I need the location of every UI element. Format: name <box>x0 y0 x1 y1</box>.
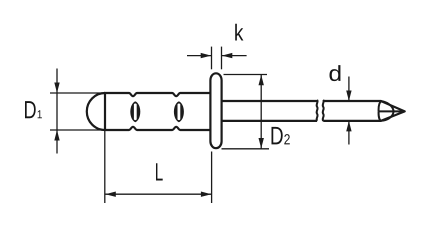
mandrel stem left segment <box>222 101 317 121</box>
D2 top extension line <box>224 74 268 76</box>
k left arrowhead <box>201 53 212 58</box>
mandrel point lower flute <box>379 111 394 120</box>
label D1 <box>25 101 42 118</box>
crimp oval 1 <box>130 101 140 122</box>
L right arrowhead <box>201 192 212 197</box>
d dimension line upper segment <box>348 77 350 101</box>
break squiggle right <box>323 100 324 121</box>
k dimension line right part <box>222 55 247 57</box>
label L <box>156 163 163 180</box>
rivet body bottom edge with crimp notches <box>104 127 211 130</box>
k extension tick left <box>211 47 213 70</box>
crimp oval 2 <box>174 101 184 122</box>
label D2 <box>272 127 290 144</box>
label k <box>235 24 243 41</box>
label d <box>329 65 340 81</box>
mandrel stem right segment <box>323 101 381 121</box>
k dimension line left part <box>187 55 211 57</box>
L dimension line <box>105 193 212 195</box>
d lower arrowhead <box>346 121 351 131</box>
break squiggle left <box>317 100 318 121</box>
k extension tick right <box>221 47 223 70</box>
D1 top arrowhead <box>54 83 59 94</box>
D1 dimension line <box>56 69 58 154</box>
rivet body top edge with crimp notches <box>104 93 211 96</box>
D2 bottom extension line <box>222 148 270 150</box>
D1 bottom extension line <box>50 129 105 131</box>
k right arrowhead <box>222 53 233 58</box>
D2 dimension line <box>260 75 262 149</box>
D2 top arrowhead <box>259 75 264 86</box>
dome-body junction line <box>104 92 106 131</box>
L left arrowhead <box>105 192 116 197</box>
D1 bottom arrowhead <box>54 130 59 141</box>
mandrel point center line <box>378 110 404 112</box>
D1 top extension line <box>50 92 105 94</box>
mandrel point outline <box>381 101 405 121</box>
L left extension line <box>104 130 106 203</box>
rivet dome head <box>87 93 105 130</box>
flange (rivet head) <box>210 73 221 148</box>
d upper arrowhead <box>346 91 351 102</box>
mandrel point upper flute <box>379 101 394 111</box>
D2 bottom arrowhead <box>259 138 264 149</box>
d dimension line lower segment <box>348 121 350 145</box>
L right extension line <box>211 152 213 204</box>
